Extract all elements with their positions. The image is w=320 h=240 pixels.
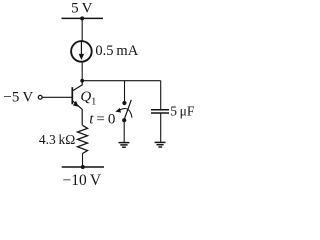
svg-text:0.5 mA: 0.5 mA: [95, 43, 138, 59]
wire resistor to -10V rail: [82, 154, 84, 168]
+5V supply rail: [62, 17, 104, 19]
base wire: [43, 96, 72, 98]
emitter arrow (NPN): [73, 101, 79, 107]
switch top contact dot: [122, 101, 126, 105]
emitter lead: [73, 101, 82, 125]
svg-text:4.3 kΩ: 4.3 kΩ: [39, 132, 75, 147]
base bar: [71, 87, 73, 104]
transistor Q1 (NPN): [72, 81, 82, 126]
current source I1 (0.5 mA): [71, 41, 92, 62]
junction dot on +5V rail: [80, 16, 84, 20]
svg-text:5 μF: 5 μF: [170, 104, 195, 119]
wire capacitor to ground: [160, 113, 162, 142]
switch motion arc: [120, 108, 132, 117]
collector lead: [73, 81, 82, 91]
svg-text:t = 0: t = 0: [89, 112, 115, 128]
switch bottom contact dot: [122, 118, 126, 122]
resistor R1 4.3 kOhm (zigzag): [78, 125, 88, 153]
junction dot on -10V rail: [81, 165, 85, 169]
wire rail to current source: [81, 18, 83, 41]
capacitor C1 (5 uF): [151, 110, 169, 113]
node A junction dot (collector node): [80, 79, 84, 83]
svg-text:5 V: 5 V: [71, 0, 93, 16]
wire node rail to capacitor: [160, 81, 162, 110]
wire current source to collector node: [81, 62, 83, 81]
input terminal circle: [38, 95, 42, 99]
svg-text:−10 V: −10 V: [63, 172, 102, 187]
wire node rail to switch: [124, 81, 126, 101]
svg-text:−5 V: −5 V: [3, 90, 33, 106]
switch blade: [124, 100, 131, 119]
ground (capacitor): [155, 142, 166, 147]
ground (switch): [119, 143, 130, 148]
wire switch to ground: [123, 120, 125, 142]
switch S1 (closes at t=0): [115, 100, 132, 122]
switch motion arrowhead: [115, 108, 121, 113]
-10V supply rail: [62, 166, 104, 168]
wire collector node to capacitor branch: [82, 80, 161, 82]
